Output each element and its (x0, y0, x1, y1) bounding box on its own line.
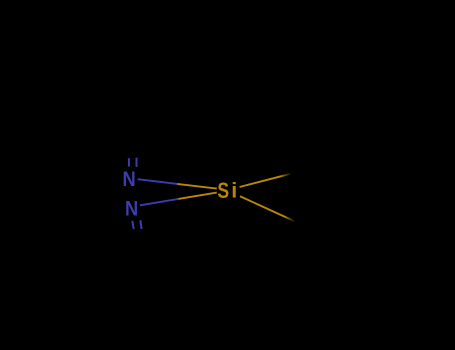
nitrogen atom N2 (125, 197, 138, 221)
double bond C=N dash upper-left (128, 158, 130, 166)
svg-text:N: N (123, 168, 136, 192)
silicon atom Si : i glyph (231, 179, 237, 203)
bond N2-Si orange half (178, 193, 216, 199)
bond N2-Si blue half (140, 199, 178, 205)
svg-text:i: i (231, 179, 237, 203)
double bond C=N dash lower-left (132, 221, 133, 229)
bond N1-Si orange half (177, 184, 217, 189)
bond Si-phenyl lower (fading into black ring carbon) (240, 196, 296, 221)
nitrogen atom N1 (123, 168, 136, 192)
svg-text:S: S (217, 179, 229, 203)
silicon atom Si : S glyph (217, 179, 229, 203)
bond N1-Si blue half (138, 179, 178, 184)
svg-text:N: N (125, 197, 138, 221)
bond Si-phenyl upper (fading into black ring carbon) (240, 174, 292, 187)
double bond C=N dash lower-right (140, 220, 141, 229)
double bond C=N dash upper-right (136, 158, 138, 167)
